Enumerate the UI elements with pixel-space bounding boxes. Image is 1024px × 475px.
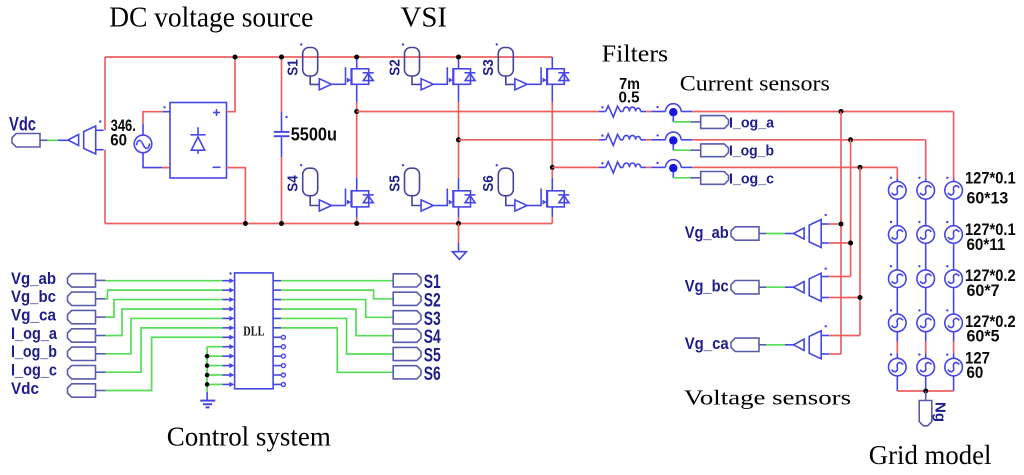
ac source Vin (134, 135, 152, 153)
svg-text:S5: S5 (386, 175, 403, 192)
wire Vdc probe to sensor (40, 139, 68, 141)
svg-text:VSI: VSI (401, 3, 448, 34)
svg-text:I_og_a: I_og_a (11, 324, 57, 343)
svg-text:Control system: Control system (167, 422, 331, 452)
wire tap C vertical (859, 167, 861, 335)
svg-text:I_og_a: I_og_a (729, 114, 775, 131)
current sensor B (651, 132, 701, 150)
probe I_og_c (701, 172, 729, 185)
svg-text:Filters: Filters (602, 42, 668, 68)
wire S5 drain leg (458, 140, 460, 178)
label Vg_ca (685, 334, 729, 353)
node S2 drain (456, 55, 461, 60)
wire grid column 1 (896, 179, 898, 392)
svg-text:S2: S2 (386, 59, 403, 76)
probe Ng (919, 401, 932, 426)
ac source grid r1c1 (889, 177, 907, 200)
node tap C (858, 165, 863, 170)
wire DLL to S3 (281, 300, 393, 318)
wire ctrl I_og_b stub (96, 353, 106, 355)
wire sensor B to grid (692, 139, 926, 141)
wire ctrl Vg_ab stub (96, 279, 106, 281)
wire sensor C to grid (692, 166, 897, 168)
svg-text:S3: S3 (480, 59, 497, 76)
wire I_og_c to DLL (106, 328, 223, 372)
probe gate S4 (393, 329, 421, 342)
ac source grid r4c2 (917, 309, 935, 332)
svg-text:Vg_ab: Vg_ab (685, 223, 729, 242)
wire phase C to filter (552, 166, 599, 168)
svg-text:S6: S6 (480, 175, 497, 192)
probe ctrl Vdc (68, 384, 96, 397)
wire ctrl I_og_a stub (96, 335, 106, 337)
svg-text:Vg_bc: Vg_bc (11, 287, 56, 306)
node phase C (550, 165, 555, 170)
ac source grid r5c1 (889, 353, 907, 376)
wire neutral stub (925, 391, 927, 401)
wire ctrl Vdc stub (96, 390, 106, 392)
probe I_og_a (701, 116, 729, 129)
label I_og_c (729, 170, 774, 187)
probe ctrl I_og_a (68, 329, 96, 342)
label Vg_bc (685, 277, 729, 296)
voltage sensor Vg_bc (794, 268, 830, 302)
svg-text:Vg_ca: Vg_ca (685, 334, 729, 353)
capacitor C1 5500u (274, 55, 290, 227)
ac source grid r4c3 (945, 309, 963, 332)
value grid row 4 (965, 313, 1016, 346)
wire ctrl Vg_bc stub (96, 298, 106, 300)
svg-text:Voltage sensors: Voltage sensors (684, 386, 851, 410)
wire Vg_bc to DLL (106, 290, 223, 299)
wire phase A to filter (357, 111, 599, 113)
probe gate S5 (393, 347, 421, 360)
svg-text:DLL: DLL (243, 324, 264, 339)
label ctrl Vg_bc (11, 287, 56, 306)
label ctrl I_og_c (11, 361, 57, 380)
switch S2 (386, 43, 475, 102)
wire bridge + to top bus (227, 55, 238, 112)
wire tap A vertical (840, 112, 842, 355)
svg-text:Current sensors: Current sensors (680, 71, 830, 96)
current sensor C (651, 160, 701, 178)
ac source grid r5c2 (917, 353, 935, 376)
switch S1 (285, 43, 374, 102)
ground control (200, 392, 215, 407)
svg-text:I_og_c: I_og_c (729, 170, 774, 187)
node tap B (848, 137, 853, 142)
ac source grid r3c2 (917, 265, 935, 288)
probe gate S3 (393, 311, 421, 324)
wire sensor A to grid (692, 111, 954, 113)
wire grid neutral bus (897, 389, 953, 394)
svg-text:I_og_b: I_og_b (11, 342, 57, 361)
value grid row 3 (965, 267, 1016, 300)
wire Vg_ab bottom (829, 241, 853, 246)
svg-text:0.5: 0.5 (618, 89, 639, 106)
wire DLL to S5 (281, 318, 393, 354)
wire Vg_ab probe to sensor (759, 233, 794, 235)
probe ctrl I_og_c (68, 366, 96, 379)
probe I_og_b (701, 144, 729, 157)
wire Vg_bc probe to sensor (759, 286, 794, 288)
probe ctrl I_og_b (68, 347, 96, 360)
wire I_og_b to DLL (106, 318, 223, 353)
label ctrl Vg_ca (11, 306, 56, 325)
svg-text:S4: S4 (285, 175, 302, 192)
wire grid drop A (953, 112, 955, 179)
label gate S4 (424, 327, 441, 348)
wire S4 drain leg (356, 112, 358, 178)
wire grid drop C (896, 167, 898, 178)
probe gate S6 (393, 366, 421, 379)
wire Vg_ca to DLL (106, 300, 223, 318)
wire S5 source to bus (456, 217, 461, 226)
wire DLL to S1 (281, 280, 393, 282)
title Grid model (869, 440, 992, 470)
label Ng (932, 402, 949, 422)
node tap A (839, 109, 844, 114)
wire I_og_a to DLL (106, 309, 223, 336)
wire DLL to S4 (281, 309, 393, 336)
wire filter to sensor B (646, 139, 651, 141)
value grid row 2 (965, 221, 1016, 254)
probe ctrl Vg_bc (68, 292, 96, 305)
value grid row 5 (965, 350, 990, 382)
probe Vdc (12, 134, 40, 148)
node S1 drain (354, 55, 359, 60)
label ctrl I_og_a (11, 324, 57, 343)
wire bridge - to bottom bus (227, 168, 248, 226)
value 7m 0.5 (618, 76, 639, 106)
label I_og_a (729, 114, 775, 131)
svg-text:60*11: 60*11 (967, 236, 1006, 254)
svg-text:I_og_c: I_og_c (11, 361, 57, 380)
svg-text:DC voltage source: DC voltage source (109, 2, 313, 34)
label ctrl I_og_b (11, 342, 57, 361)
wire Vg_ca top (829, 335, 860, 337)
wire grid column 3 (953, 179, 955, 392)
title Voltage sensors (684, 386, 851, 410)
probe ctrl Vg_ca (68, 310, 96, 323)
probe Vg_ab (731, 227, 759, 240)
ac source grid r2c3 (945, 221, 963, 244)
filter RL phase B (599, 134, 646, 145)
voltage sensor Vdc (68, 120, 104, 154)
svg-text:S6: S6 (424, 364, 441, 385)
wire Vg_ab to DLL (106, 280, 223, 282)
title DC voltage source (109, 2, 313, 34)
wire filter to sensor A (646, 111, 651, 113)
ac source grid r1c3 (945, 177, 963, 200)
ac source grid r3c3 (945, 265, 963, 288)
wire Vg_bc bottom (829, 295, 862, 300)
label gate S5 (424, 346, 441, 367)
label ctrl Vdc (11, 379, 39, 398)
label gate S6 (424, 364, 441, 385)
wire tap B vertical (850, 140, 852, 277)
label Vg_ab (685, 223, 729, 242)
ac source grid r1c2 (917, 177, 935, 200)
wire left branch lower (104, 150, 106, 224)
ac source grid r2c1 (889, 221, 907, 244)
current sensor A (651, 104, 701, 122)
label gate S3 (424, 309, 441, 330)
filter RL phase A (599, 106, 646, 117)
diode bridge BD1 (170, 103, 227, 179)
svg-text:60*7: 60*7 (967, 282, 1000, 300)
wire Vg_ca bottom (829, 353, 841, 355)
wire Vin top to bridge (143, 106, 170, 135)
svg-text:60: 60 (967, 364, 984, 382)
svg-text:5500u: 5500u (291, 125, 337, 145)
probe ctrl Vg_ab (68, 274, 96, 287)
probe gate S1 (393, 274, 421, 287)
svg-text:Ng: Ng (932, 402, 949, 422)
label Vdc (9, 115, 36, 136)
wire phase B to filter (459, 139, 600, 141)
probe gate S2 (393, 292, 421, 305)
wire bottom DC bus (105, 223, 552, 225)
probe Vg_bc (731, 281, 759, 294)
ground VSI (452, 252, 466, 260)
title Control system (167, 422, 331, 452)
wire S4 source to bus (354, 217, 359, 226)
wire Vg_ca probe to sensor (759, 344, 794, 346)
wire S1 source to phase A (356, 102, 358, 112)
title VSI (401, 3, 448, 34)
wire top DC bus (105, 56, 552, 58)
svg-text:60: 60 (110, 131, 127, 150)
wire S6 drain leg (551, 167, 553, 178)
value 5500u (291, 125, 337, 145)
label DLL (243, 324, 264, 339)
switch S3 (480, 43, 569, 102)
ac source grid r4c1 (889, 309, 907, 332)
switch S5 (386, 164, 475, 217)
svg-text:Vg_ab: Vg_ab (11, 269, 56, 288)
svg-text:Vg_ca: Vg_ca (11, 306, 56, 325)
wire DLL to S6 (281, 328, 393, 372)
node phase A (354, 109, 359, 114)
wire S2 source to phase B (458, 102, 460, 140)
label gate S2 (424, 290, 441, 311)
wire S3 source to phase C (551, 102, 553, 167)
title Filters (602, 42, 668, 68)
svg-text:Vdc: Vdc (11, 379, 39, 398)
wire Vin bottom to bridge (143, 153, 170, 168)
value 346. 60 (110, 116, 136, 150)
filter RL phase C (599, 162, 646, 173)
label ctrl Vg_ab (11, 269, 56, 288)
DLL controller U1 (223, 272, 286, 389)
svg-text:Vg_bc: Vg_bc (685, 277, 729, 296)
wire grid drop B (925, 140, 927, 179)
wire DLL to S2 (281, 290, 393, 299)
wire ctrl Vg_ca stub (96, 316, 106, 318)
ac source grid r3c1 (889, 265, 907, 288)
label gate S1 (424, 272, 441, 293)
label I_og_b (729, 143, 774, 160)
wire Vg_bc top (829, 276, 850, 278)
voltage sensor Vg_ca (794, 325, 830, 359)
wire left branch upper (104, 57, 106, 130)
switch S6 (480, 164, 569, 217)
svg-text:Grid model: Grid model (869, 440, 992, 470)
wire filter to sensor C (646, 166, 651, 168)
switch S4 (285, 164, 374, 217)
voltage sensor Vg_ab (794, 214, 830, 248)
svg-text:S1: S1 (285, 59, 302, 76)
wire ctrl I_og_c stub (96, 371, 106, 373)
svg-text:127*0.1: 127*0.1 (965, 170, 1016, 188)
ac source grid r2c2 (917, 221, 935, 244)
svg-text:60*13: 60*13 (967, 189, 1009, 207)
wire S6 source to bus (551, 217, 553, 224)
title Current sensors (680, 71, 830, 96)
probe Vg_ca (731, 338, 759, 351)
node phase B (456, 137, 461, 142)
svg-text:Vdc: Vdc (9, 115, 36, 136)
wire to ground (458, 224, 460, 252)
wire Vdc to DLL (106, 337, 223, 390)
svg-text:I_og_b: I_og_b (729, 143, 774, 160)
wire grounded DLL inputs (205, 347, 223, 392)
svg-text:60*5: 60*5 (967, 328, 1000, 346)
value grid row 1 (965, 170, 1016, 208)
wire grid column 2 (925, 179, 927, 392)
wire Vg_ab top (829, 222, 843, 227)
ac source grid r5c3 (945, 353, 963, 376)
